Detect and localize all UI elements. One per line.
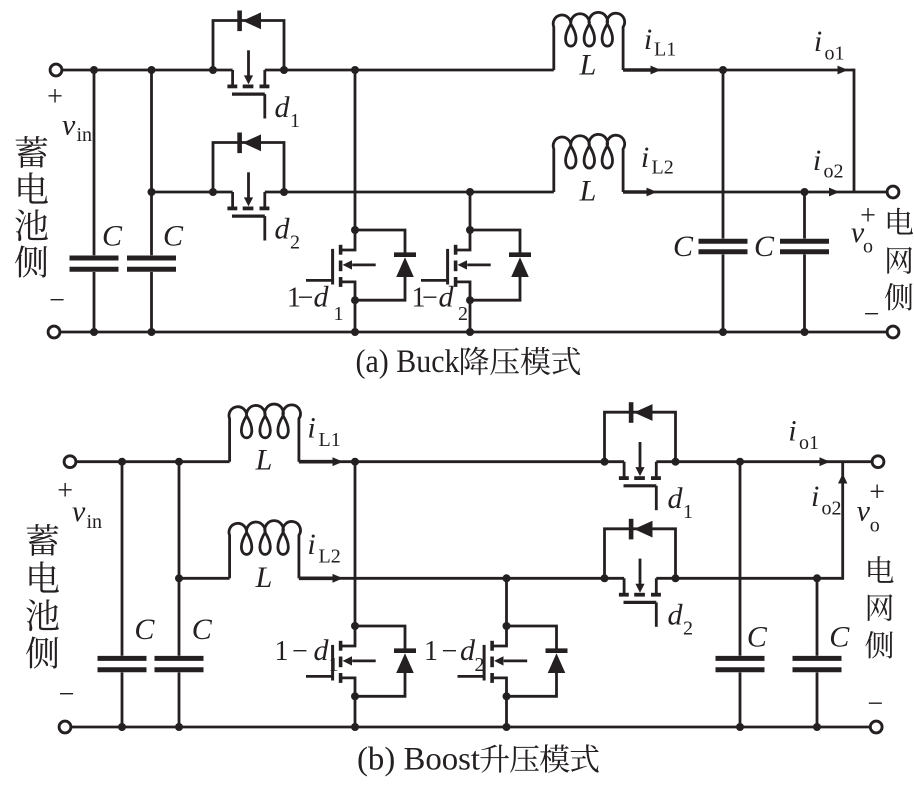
junction leg (b) (351, 692, 359, 700)
capacitor C in1 (b) (98, 658, 147, 669)
svg-text:i: i (644, 23, 652, 56)
svg-text:C: C (754, 230, 775, 263)
junction rail3 (a) (801, 328, 809, 336)
wire: mid rail left section (a) (152, 191, 233, 194)
wire: top rail left section (a) (62, 69, 232, 72)
svg-text:d: d (275, 91, 291, 124)
MOSFET 1-d2 (b) (458, 626, 568, 696)
svg-text:d: d (314, 634, 330, 667)
junction rail1 (a) (719, 66, 727, 74)
svg-text:i: i (814, 25, 822, 58)
svg-text:d: d (668, 599, 684, 632)
svg-text:C: C (673, 230, 694, 263)
MOSFET d1 (b) (605, 402, 676, 510)
junction rail3 (b) (503, 723, 511, 731)
svg-text:C: C (134, 613, 155, 646)
svg-text:+: + (869, 477, 885, 508)
junction rail3 (a) (351, 328, 359, 336)
MOSFET d2 (a) (213, 133, 284, 241)
wire: output capacitor 1 leg (b) (739, 462, 742, 656)
svg-text:+: + (47, 82, 63, 113)
svg-text:1: 1 (275, 636, 289, 667)
MOSFET 1-d1 (b) (306, 626, 416, 696)
junction rail2 (b) (503, 574, 511, 582)
label battery-side text (b) (26, 524, 59, 669)
arrow i_L1 (a) (623, 68, 652, 72)
wire: input capacitor 2 leg (b) (178, 462, 181, 656)
svg-text:o2: o2 (824, 161, 844, 183)
svg-text:L: L (255, 561, 273, 594)
junction rail1 (b) (351, 458, 359, 466)
capacitor C out1 (b) (716, 658, 765, 669)
junction leg (b) (503, 692, 511, 700)
junction rail2 (b) (601, 574, 609, 582)
inductor L2 (a) (553, 134, 624, 192)
junction leg (b) (351, 622, 359, 630)
wire: mid rail right section (a) (623, 191, 887, 194)
wire: input capacitor 1 leg (b) (121, 462, 124, 656)
svg-text:C: C (829, 620, 850, 653)
junction rail1 (a) (209, 66, 217, 74)
svg-text:1: 1 (334, 303, 344, 325)
label grid-side text (b) (865, 556, 893, 658)
wire: rail2-rail1 link with io2 (b) (841, 462, 844, 580)
wire: output capacitor 2 leg (a) (803, 192, 806, 239)
capacitor C out2 (a) (780, 241, 829, 252)
svg-text:d: d (275, 213, 291, 246)
wire: input capacitor 1 leg (a) (93, 70, 96, 255)
svg-text:L: L (579, 174, 597, 207)
wire: output capacitor 2 leg (b) (816, 578, 819, 655)
svg-text:1: 1 (329, 654, 339, 676)
arrow i_L1 (b) (299, 460, 334, 464)
svg-text:−: − (59, 679, 75, 710)
wire: leg1 upper (b) (354, 462, 357, 626)
MOSFET d2 (b) (605, 519, 676, 627)
svg-text:o1: o1 (799, 432, 819, 454)
wire: leg2 lower (b) (505, 696, 508, 727)
wire: mid rail mid section (a) (265, 191, 554, 194)
svg-text:C: C (102, 220, 123, 253)
svg-text:1: 1 (290, 110, 300, 132)
svg-text:L: L (579, 48, 597, 81)
svg-text:in: in (77, 124, 93, 146)
junction rail1 (b) (601, 458, 609, 466)
svg-text:−: − (298, 283, 314, 314)
svg-text:i: i (641, 141, 649, 174)
junction rail2 (a) (209, 188, 217, 196)
svg-text:2: 2 (458, 303, 468, 325)
wire: top rail right section (b) (656, 460, 872, 463)
MOSFET 1-d2 (a) (421, 230, 531, 300)
svg-text:−: − (864, 299, 880, 330)
svg-text:2: 2 (683, 618, 693, 640)
junction rail2 (b) (175, 574, 183, 582)
wire: output capacitor 1 leg (a) (722, 70, 725, 239)
input terminal - (a) (48, 326, 60, 338)
svg-text:(b) Boost: (b) Boost (357, 742, 480, 778)
svg-text:v: v (62, 109, 76, 142)
junction rail3 (a) (148, 328, 156, 336)
junction rail2 (a) (801, 188, 809, 196)
MOSFET 1-d1 (a) (306, 230, 416, 300)
svg-text:−: − (442, 636, 458, 667)
svg-text:2: 2 (475, 654, 485, 676)
junction rail3 (a) (466, 328, 474, 336)
arrow i_o2 (a) (829, 188, 840, 197)
arrow i_L2 (a) (623, 190, 648, 194)
svg-text:C: C (192, 613, 213, 646)
svg-text:i: i (811, 480, 819, 513)
junction rail2 (a) (148, 188, 156, 196)
svg-text:−: − (867, 688, 883, 719)
capacitor C out1 (a) (699, 241, 748, 252)
input terminal - (b) (59, 721, 71, 733)
label grid-side text (a) (885, 208, 913, 311)
svg-text:v: v (857, 494, 871, 527)
arrow i_o2 up (b) (838, 474, 847, 484)
svg-text:d: d (314, 281, 330, 314)
junction leg (a) (351, 296, 359, 304)
svg-text:o2: o2 (822, 498, 842, 520)
junction leg (a) (466, 296, 474, 304)
svg-text:C: C (163, 220, 184, 253)
wire: bottom rail (b) (71, 726, 870, 729)
wire: leg1 lower (b) (354, 696, 357, 727)
svg-text:1: 1 (683, 501, 693, 523)
arrow i_o1 (a) (838, 66, 849, 75)
wire: leg1 lower (a) (354, 300, 357, 332)
junction rail3 (a) (90, 328, 98, 336)
svg-text:1: 1 (424, 636, 438, 667)
label battery-side text (a) (15, 136, 48, 278)
svg-text:2: 2 (290, 232, 300, 254)
junction rail1 (a) (351, 66, 359, 74)
wire: leg1 upper (a) (354, 70, 357, 230)
svg-text:C: C (747, 620, 768, 653)
junction rail1 (b) (118, 458, 126, 466)
wire: mid rail left section (b) (179, 577, 230, 580)
wire: rail1-rail2 link (a) (853, 69, 856, 192)
svg-text:(a) Buck: (a) Buck (356, 344, 460, 380)
wire: top rail mid section (a) (265, 69, 554, 72)
MOSFET d1 (a) (213, 11, 284, 119)
wire: mid rail mid section (b) (299, 577, 624, 580)
input terminal + (a) (50, 64, 62, 76)
wire: bottom rail (a) (60, 331, 887, 334)
svg-text:L1: L1 (654, 39, 676, 61)
svg-text:i: i (307, 528, 315, 561)
junction rail3 (b) (813, 723, 821, 731)
junction rail1 (a) (280, 66, 288, 74)
junction rail3 (b) (118, 723, 126, 731)
wire: mid rail right section (b) (656, 577, 842, 580)
output terminal + (b) (872, 456, 884, 468)
svg-text:o1: o1 (825, 43, 845, 65)
capacitor C in2 (a) (127, 258, 176, 269)
svg-text:−: − (422, 283, 438, 314)
wire: top rail mid section (b) (299, 460, 624, 463)
wire: leg2 upper (b) (505, 578, 508, 626)
junction leg (a) (351, 226, 359, 234)
junction rail1 (b) (175, 458, 183, 466)
svg-text:d: d (439, 281, 455, 314)
arrow i_L2 (b) (299, 576, 334, 580)
svg-text:−: − (292, 636, 308, 667)
inductor L2 (b) (229, 521, 300, 579)
input terminal + (b) (64, 456, 76, 468)
inductor L1 (a) (553, 12, 624, 70)
wire: leg2 upper (a) (469, 192, 472, 230)
junction rail2 (a) (280, 188, 288, 196)
svg-text:d: d (668, 482, 684, 515)
wire: input capacitor 2 leg (a) (150, 70, 153, 255)
svg-text:v: v (72, 495, 86, 528)
svg-text:in: in (87, 511, 103, 533)
svg-text:i: i (813, 144, 821, 177)
svg-text:L2: L2 (652, 156, 674, 178)
svg-text:+: + (57, 475, 73, 506)
junction rail3 (a) (719, 328, 727, 336)
wire: top rail right section (a) (623, 69, 854, 72)
output terminal + (a) (887, 186, 899, 198)
junction rail1 (a) (148, 66, 156, 74)
wire: top rail left section (b) (76, 460, 229, 463)
junction leg (b) (503, 622, 511, 630)
junction rail1 (a) (90, 66, 98, 74)
junction rail3 (b) (175, 723, 183, 731)
svg-text:i: i (788, 415, 796, 448)
svg-text:L1: L1 (319, 429, 341, 451)
junction rail3 (b) (736, 723, 744, 731)
junction rail3 (b) (351, 723, 359, 731)
svg-text:−: − (49, 285, 65, 316)
svg-text:o: o (863, 236, 873, 258)
junction rail1 (b) (736, 458, 744, 466)
junction rail2 (b) (813, 574, 821, 582)
svg-text:o: o (870, 515, 880, 537)
svg-text:L2: L2 (319, 545, 341, 567)
output terminal - (a) (887, 326, 899, 338)
capacitor C out2 (b) (793, 658, 842, 669)
inductor L1 (b) (229, 404, 300, 462)
junction rail2 (b) (672, 574, 680, 582)
arrow i_o1 (b) (820, 457, 831, 466)
junction leg (a) (466, 226, 474, 234)
output terminal - (b) (870, 721, 882, 733)
wire: leg2 lower (a) (469, 300, 472, 332)
svg-text:i: i (307, 412, 315, 445)
junction rail1 (b) (672, 458, 680, 466)
capacitor C in1 (a) (70, 258, 119, 269)
svg-text:L: L (255, 443, 273, 476)
capacitor C in2 (b) (155, 658, 204, 669)
junction rail2 (a) (466, 188, 474, 196)
